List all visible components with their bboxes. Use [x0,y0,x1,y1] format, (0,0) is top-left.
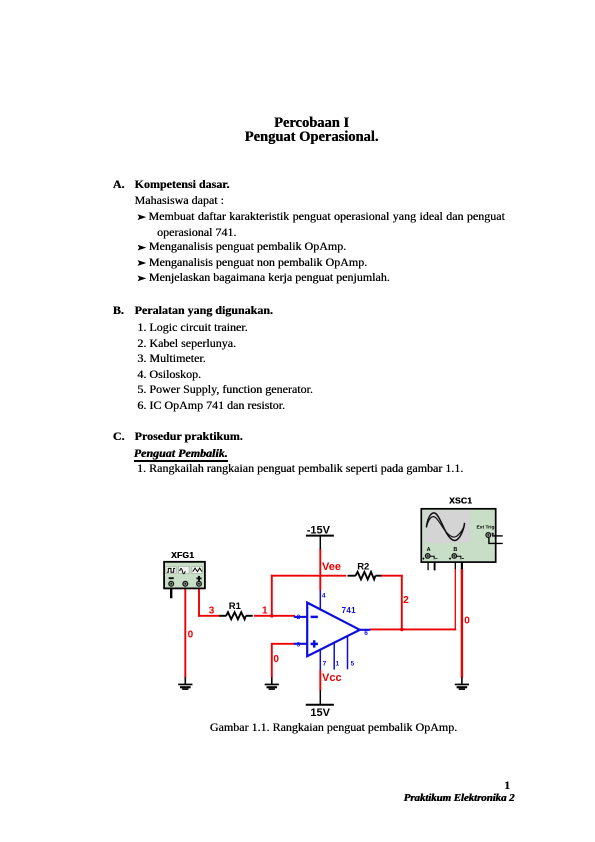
svg-text:R2: R2 [357,561,369,572]
svg-text:1: 1 [262,606,268,617]
svg-text:R1: R1 [229,601,242,612]
svg-text:0: 0 [273,654,279,665]
svg-text:5: 5 [351,661,355,668]
svg-text:3: 3 [297,642,301,649]
svg-text:0: 0 [464,616,470,627]
svg-text:B: B [453,547,457,553]
svg-text:4: 4 [322,593,326,600]
svg-text:2: 2 [403,595,409,606]
svg-text:XFG1: XFG1 [171,550,194,560]
svg-text:Ext Trig: Ext Trig [477,524,495,530]
svg-text:2: 2 [297,614,301,621]
svg-text:7: 7 [323,661,327,668]
svg-text:Vcc: Vcc [322,672,342,684]
svg-text:1: 1 [336,661,340,668]
svg-text:-15V: -15V [307,524,331,536]
svg-text:741: 741 [342,606,356,615]
svg-text:Vee: Vee [322,561,341,573]
svg-text:15V: 15V [310,707,330,719]
svg-text:3: 3 [209,606,215,617]
svg-text:XSC1: XSC1 [449,496,472,506]
svg-text:0: 0 [188,630,194,641]
svg-text:A: A [427,547,431,553]
svg-text:6: 6 [364,630,368,637]
